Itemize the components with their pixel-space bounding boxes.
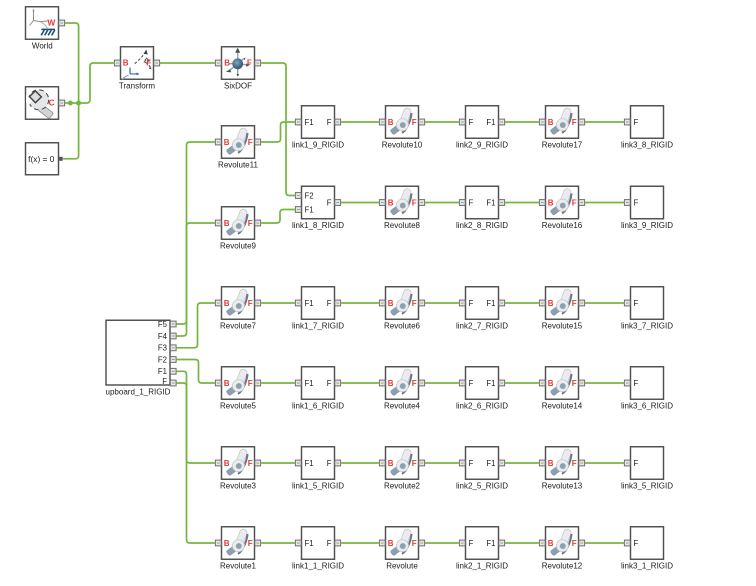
wire row1 Revolute F to link3 F	[585, 121, 625, 123]
revolute joint block Revolute8	[379, 186, 424, 230]
svg-text:F: F	[634, 539, 639, 548]
svg-text:B: B	[388, 539, 394, 548]
six-DOF joint block SixDOF	[215, 47, 260, 91]
rigid body block link1_8_RIGID	[292, 186, 344, 230]
svg-text:F: F	[146, 59, 151, 68]
svg-text:F: F	[572, 198, 577, 207]
svg-text:F: F	[412, 198, 417, 207]
svg-text:F: F	[469, 299, 474, 308]
revolute joint block Revolute1	[215, 527, 260, 571]
wire row1 link2 F1 to Revolute B	[505, 121, 540, 123]
svg-text:link2_8_RIGID: link2_8_RIGID	[456, 221, 508, 230]
rigid body block link3_1_RIGID	[621, 527, 673, 571]
svg-text:F: F	[412, 459, 417, 468]
svg-text:F4: F4	[158, 332, 168, 341]
revolute joint block Revolute10	[379, 106, 424, 150]
svg-text:F: F	[248, 379, 253, 388]
svg-text:Revolute3: Revolute3	[220, 482, 257, 491]
svg-text:F: F	[327, 118, 332, 127]
revolute joint block Revolute3	[215, 447, 260, 491]
wire World W to solver f(x) net	[63, 23, 79, 159]
svg-text:F: F	[248, 459, 253, 468]
svg-text:B: B	[548, 118, 554, 127]
svg-text:F2: F2	[158, 355, 167, 364]
junction dot	[76, 101, 81, 106]
svg-text:F1: F1	[305, 459, 314, 468]
junction dot	[68, 101, 73, 106]
svg-text:upboard_1_RIGID: upboard_1_RIGID	[106, 387, 171, 396]
rigid body block link1_6_RIGID	[292, 367, 344, 411]
svg-text:B: B	[224, 219, 230, 228]
svg-text:F: F	[469, 198, 474, 207]
svg-text:link1_1_RIGID: link1_1_RIGID	[292, 562, 344, 571]
wire row4 link1 F to Revolute B	[341, 382, 380, 384]
svg-text:F: F	[327, 459, 332, 468]
svg-text:F1: F1	[486, 198, 495, 207]
svg-text:SixDOF: SixDOF	[224, 82, 252, 91]
svg-text:link1_5_RIGID: link1_5_RIGID	[292, 482, 344, 491]
svg-text:Revolute13: Revolute13	[542, 482, 583, 491]
rigid body block link3_8_RIGID	[621, 106, 673, 150]
revolute joint block Revolute5	[215, 367, 260, 411]
wire row6 link2 F1 to Revolute B	[505, 542, 540, 544]
svg-text:link2_9_RIGID: link2_9_RIGID	[456, 141, 508, 150]
svg-text:F5: F5	[158, 320, 168, 329]
wire row6 link1 F to Revolute B	[341, 542, 380, 544]
revolute joint block Revolute4	[379, 367, 424, 411]
wire row6 Revolute F to link1 F1	[261, 542, 296, 544]
svg-text:F1: F1	[486, 118, 495, 127]
wire upboard F5 to Revolute11 B	[177, 142, 216, 324]
svg-text:F: F	[412, 379, 417, 388]
rigid body block link2_1_RIGID	[456, 527, 508, 571]
revolute joint block Revolute11	[215, 126, 260, 170]
svg-text:F: F	[469, 379, 474, 388]
rigid body block link1_9_RIGID	[292, 106, 344, 150]
svg-text:Revolute2: Revolute2	[384, 482, 421, 491]
svg-text:F: F	[162, 377, 167, 386]
svg-text:B: B	[388, 198, 394, 207]
svg-text:f(x) = 0: f(x) = 0	[28, 154, 55, 164]
wire row2 Revolute F to link3 F	[585, 202, 625, 204]
rigid body block link2_9_RIGID	[456, 106, 508, 150]
svg-text:F: F	[572, 379, 577, 388]
svg-text:F: F	[572, 539, 577, 548]
svg-text:F1: F1	[305, 539, 314, 548]
svg-text:link2_5_RIGID: link2_5_RIGID	[456, 482, 508, 491]
svg-text:Revolute9: Revolute9	[220, 242, 257, 251]
wire upboard F to Revolute1 B	[177, 383, 216, 543]
wire row3 link2 F1 to Revolute B	[505, 302, 540, 304]
wire row2 Revolute F to link2 F	[425, 202, 460, 204]
svg-text:Transform: Transform	[119, 82, 155, 91]
svg-text:F1: F1	[486, 459, 495, 468]
wire row5 Revolute F to link1 F1	[261, 462, 296, 464]
wire upboard F1 to Revolute3 B	[177, 371, 216, 463]
wire mechanism C to Transform B	[65, 63, 115, 103]
svg-text:Revolute6: Revolute6	[384, 322, 421, 331]
svg-text:B: B	[224, 459, 230, 468]
svg-text:B: B	[388, 118, 394, 127]
wire row6 Revolute F to link2 F	[425, 542, 460, 544]
wire row5 link2 F1 to Revolute B	[505, 462, 540, 464]
wire row4 link2 F1 to Revolute B	[505, 382, 540, 384]
wire row2 link2 F1 to Revolute B	[505, 202, 540, 204]
rigid body block link2_8_RIGID	[456, 186, 508, 230]
svg-text:F: F	[572, 459, 577, 468]
svg-text:F1: F1	[486, 379, 495, 388]
svg-text:B: B	[224, 299, 230, 308]
svg-text:Revolute1: Revolute1	[220, 562, 257, 571]
svg-text:Revolute15: Revolute15	[542, 322, 583, 331]
wire row3 Revolute F to link2 F	[425, 302, 460, 304]
svg-text:F: F	[248, 539, 253, 548]
wire row6 Revolute F to link3 F	[585, 542, 625, 544]
svg-text:F1: F1	[305, 205, 314, 214]
svg-text:Revolute4: Revolute4	[384, 402, 421, 411]
svg-text:B: B	[123, 59, 129, 68]
svg-text:B: B	[388, 299, 394, 308]
wire row3 link1 F to Revolute B	[341, 302, 380, 304]
svg-text:F1: F1	[158, 367, 167, 376]
revolute joint block Revolute16	[539, 186, 584, 230]
svg-text:link1_9_RIGID: link1_9_RIGID	[292, 141, 344, 150]
svg-text:link3_7_RIGID: link3_7_RIGID	[621, 322, 673, 331]
rigid body block link1_1_RIGID	[292, 527, 344, 571]
revolute joint block Revolute13	[539, 447, 584, 491]
svg-text:B: B	[224, 59, 230, 68]
svg-text:F: F	[572, 118, 577, 127]
svg-text:B: B	[224, 539, 230, 548]
svg-text:F: F	[412, 299, 417, 308]
svg-text:link2_6_RIGID: link2_6_RIGID	[456, 402, 508, 411]
svg-text:link3_1_RIGID: link3_1_RIGID	[621, 562, 673, 571]
svg-text:F: F	[469, 539, 474, 548]
rigid body block link1_7_RIGID	[292, 287, 344, 331]
revolute joint block Revolute9	[215, 207, 260, 251]
rigid body block link3_6_RIGID	[621, 367, 673, 411]
wire row1 Revolute F to link2 F	[425, 121, 460, 123]
svg-text:B: B	[548, 299, 554, 308]
wire SixDOF F to link1_8 F2	[261, 63, 296, 196]
svg-text:B: B	[224, 379, 230, 388]
wire Transform F to SixDOF B	[160, 62, 216, 64]
revolute joint block Revolute14	[539, 367, 584, 411]
svg-text:F: F	[634, 198, 639, 207]
svg-text:F: F	[412, 118, 417, 127]
rigid body block link3_5_RIGID	[621, 447, 673, 491]
svg-text:F1: F1	[305, 299, 314, 308]
svg-text:B: B	[388, 459, 394, 468]
svg-text:Revolute14: Revolute14	[542, 402, 583, 411]
svg-text:F: F	[572, 299, 577, 308]
rigid body block link1_5_RIGID	[292, 447, 344, 491]
rigid body block link3_9_RIGID	[621, 186, 673, 230]
rigid body block upboard_1_RIGID	[106, 320, 177, 397]
rigid transform block Transform	[114, 47, 159, 91]
svg-text:link3_6_RIGID: link3_6_RIGID	[621, 402, 673, 411]
revolute joint block Revolute17	[539, 106, 584, 150]
svg-text:B: B	[548, 539, 554, 548]
svg-text:Revolute11: Revolute11	[218, 161, 258, 170]
svg-text:link3_5_RIGID: link3_5_RIGID	[621, 482, 673, 491]
mechanism configuration block C (wrench)	[26, 87, 65, 120]
rigid body block link3_7_RIGID	[621, 287, 673, 331]
svg-text:Revolute10: Revolute10	[382, 141, 423, 150]
wire row5 Revolute F to link2 F	[425, 462, 460, 464]
svg-text:F: F	[634, 379, 639, 388]
wire row1 link1 F to Revolute B	[341, 121, 380, 123]
wire upboard F4 to Revolute9 B	[177, 223, 216, 336]
svg-text:F1: F1	[305, 118, 314, 127]
World frame block W	[26, 7, 65, 51]
revolute joint block Revolute12	[539, 527, 584, 571]
svg-text:F: F	[327, 379, 332, 388]
svg-text:link1_7_RIGID: link1_7_RIGID	[292, 322, 344, 331]
svg-text:F: F	[634, 118, 639, 127]
svg-text:F: F	[469, 118, 474, 127]
svg-text:Revolute8: Revolute8	[384, 221, 421, 230]
wire Revolute9 F to link1_8 F1	[261, 210, 296, 224]
svg-text:Revolute7: Revolute7	[220, 322, 257, 331]
svg-text:W: W	[47, 18, 55, 28]
svg-text:F1: F1	[305, 379, 314, 388]
svg-text:Revolute: Revolute	[386, 562, 418, 571]
svg-text:B: B	[388, 379, 394, 388]
svg-text:link1_8_RIGID: link1_8_RIGID	[292, 221, 344, 230]
svg-text:B: B	[548, 379, 554, 388]
svg-text:F: F	[412, 539, 417, 548]
svg-text:B: B	[548, 198, 554, 207]
wire row4 Revolute F to link2 F	[425, 382, 460, 384]
svg-text:World: World	[32, 42, 53, 51]
svg-text:link1_6_RIGID: link1_6_RIGID	[292, 402, 344, 411]
svg-text:Revolute12: Revolute12	[542, 562, 583, 571]
svg-text:Revolute16: Revolute16	[542, 221, 583, 230]
svg-text:F: F	[327, 198, 332, 207]
svg-text:F: F	[247, 59, 252, 68]
revolute joint block Revolute15	[539, 287, 584, 331]
svg-text:F: F	[248, 219, 253, 228]
wire row3 Revolute F to link3 F	[585, 302, 625, 304]
svg-text:F: F	[634, 299, 639, 308]
svg-text:Revolute5: Revolute5	[220, 402, 257, 411]
svg-text:B: B	[224, 138, 230, 147]
svg-text:F1: F1	[486, 299, 495, 308]
wire upboard F2 to Revolute5 B	[177, 360, 216, 384]
svg-text:link2_7_RIGID: link2_7_RIGID	[456, 322, 508, 331]
svg-text:F: F	[469, 459, 474, 468]
wire row4 Revolute F to link3 F	[585, 382, 625, 384]
revolute joint block Revolute	[379, 527, 424, 571]
svg-text:F: F	[327, 299, 332, 308]
svg-text:Revolute17: Revolute17	[542, 141, 583, 150]
svg-text:F: F	[248, 299, 253, 308]
svg-text:F2: F2	[305, 191, 314, 200]
wire row4 Revolute F to link1 F1	[261, 382, 296, 384]
svg-text:B: B	[548, 459, 554, 468]
wire row5 Revolute F to link3 F	[585, 462, 625, 464]
svg-text:F: F	[634, 459, 639, 468]
rigid body block link2_5_RIGID	[456, 447, 508, 491]
solver configuration block f(x) = 0	[26, 143, 63, 175]
svg-text:F: F	[248, 138, 253, 147]
wire row2 link1 F to Revolute B	[341, 202, 380, 204]
wire row5 link1 F to Revolute B	[341, 462, 380, 464]
svg-text:C: C	[49, 98, 55, 108]
svg-text:link3_8_RIGID: link3_8_RIGID	[621, 141, 673, 150]
rigid body block link2_7_RIGID	[456, 287, 508, 331]
svg-text:F: F	[327, 539, 332, 548]
revolute joint block Revolute2	[379, 447, 424, 491]
svg-text:link2_1_RIGID: link2_1_RIGID	[456, 562, 508, 571]
revolute joint block Revolute7	[215, 287, 260, 331]
revolute joint block Revolute6	[379, 287, 424, 331]
rigid body block link2_6_RIGID	[456, 367, 508, 411]
wire row3 Revolute F to link1 F1	[261, 302, 296, 304]
wire Revolute11 F to link1_9 F1	[261, 122, 296, 142]
wire upboard F3 to Revolute7 B	[177, 303, 216, 348]
svg-text:F3: F3	[158, 344, 167, 353]
svg-text:F1: F1	[486, 539, 495, 548]
svg-text:link3_9_RIGID: link3_9_RIGID	[621, 221, 673, 230]
